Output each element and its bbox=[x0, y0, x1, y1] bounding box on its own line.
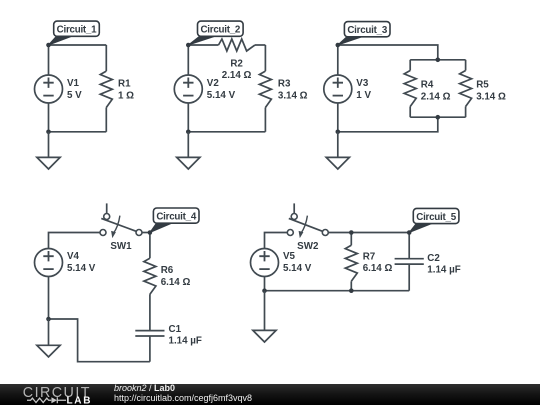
svg-text:Circuit_4: Circuit_4 bbox=[156, 212, 196, 223]
svg-text:5.14 V: 5.14 V bbox=[207, 90, 236, 101]
wire bbox=[350, 233, 352, 246]
wire bbox=[265, 290, 410, 292]
wire bbox=[49, 233, 101, 250]
footer bar bbox=[0, 384, 540, 405]
voltage source V2 bbox=[174, 75, 202, 103]
svg-text:Circuit_5: Circuit_5 bbox=[416, 212, 456, 223]
svg-text:5 V: 5 V bbox=[67, 90, 82, 101]
svg-text:C1: C1 bbox=[169, 324, 182, 335]
node junction switch output bbox=[148, 230, 153, 235]
wire bbox=[49, 44, 107, 46]
wire bbox=[142, 232, 150, 234]
svg-text:R3: R3 bbox=[278, 79, 291, 90]
wire bbox=[265, 233, 288, 250]
node junction R7 bottom bbox=[349, 288, 354, 293]
wire bbox=[408, 233, 410, 259]
svg-text:3.14 Ω: 3.14 Ω bbox=[278, 91, 308, 102]
wire bbox=[48, 277, 50, 320]
wire bbox=[49, 319, 150, 362]
svg-text:SW2: SW2 bbox=[297, 241, 319, 252]
wire bbox=[264, 277, 266, 291]
voltage source V1 bbox=[35, 75, 63, 103]
node junction bottom-left bbox=[336, 130, 341, 135]
callout label Circuit_3 bbox=[338, 22, 390, 45]
node junction parallel bottom bbox=[436, 115, 441, 120]
resistor R1 bbox=[100, 45, 112, 132]
wire bbox=[338, 45, 438, 60]
wire bbox=[187, 103, 189, 132]
wire bbox=[255, 44, 265, 46]
label V1 5 V bbox=[67, 78, 82, 101]
svg-text:R6: R6 bbox=[161, 265, 174, 276]
label C2 1.14 uF bbox=[427, 253, 460, 276]
svg-text:V5: V5 bbox=[283, 251, 296, 262]
node junction top bbox=[46, 43, 51, 48]
wire bbox=[337, 103, 339, 132]
wire bbox=[410, 116, 465, 118]
node junction C2 top bbox=[407, 230, 412, 235]
label R5 3.14 ohm bbox=[476, 79, 506, 102]
resistor R3 bbox=[259, 45, 271, 132]
node junction bottom bbox=[46, 130, 51, 135]
svg-text:6.14 Ω: 6.14 Ω bbox=[363, 263, 393, 274]
node junction parallel top bbox=[436, 58, 441, 63]
svg-text:1.14 µF: 1.14 µF bbox=[169, 335, 202, 346]
label R7 6.14 ohm bbox=[363, 251, 393, 274]
label V5 5.14 V bbox=[283, 251, 312, 274]
wire bbox=[188, 131, 265, 133]
footer text bbox=[114, 384, 252, 403]
svg-text:6.14 Ω: 6.14 Ω bbox=[161, 277, 191, 288]
voltage source V4 bbox=[35, 249, 63, 277]
svg-text:V3: V3 bbox=[356, 78, 369, 89]
node junction V5 bottom bbox=[262, 288, 267, 293]
svg-text:Circuit_2: Circuit_2 bbox=[200, 25, 240, 36]
svg-text:V4: V4 bbox=[67, 251, 80, 262]
node junction top bbox=[186, 43, 191, 48]
svg-text:LAB: LAB bbox=[67, 396, 93, 405]
callout label Circuit_5 bbox=[409, 208, 459, 232]
wire bbox=[188, 44, 218, 46]
label R2 2.14 ohm bbox=[222, 58, 252, 81]
voltage source V5 bbox=[251, 249, 279, 277]
svg-text:R1: R1 bbox=[118, 79, 131, 90]
svg-text:V2: V2 bbox=[207, 78, 220, 89]
label R4 2.14 ohm bbox=[421, 79, 451, 102]
node junction bbox=[46, 317, 51, 322]
capacitor C2 bbox=[395, 259, 424, 291]
capacitor C1 bbox=[135, 331, 164, 362]
wire bbox=[49, 131, 107, 133]
svg-text:5.14 V: 5.14 V bbox=[283, 263, 312, 274]
resistor R7 bbox=[345, 245, 357, 290]
node junction top-left bbox=[336, 43, 341, 48]
label V2 5.14 V bbox=[207, 78, 236, 101]
resistor R5 bbox=[460, 60, 472, 117]
svg-text:3.14 Ω: 3.14 Ω bbox=[476, 91, 506, 102]
svg-text:SW1: SW1 bbox=[110, 241, 132, 252]
switch SW1 bbox=[100, 203, 142, 238]
label C1 1.14 uF bbox=[169, 324, 202, 347]
label V4 5.14 V bbox=[67, 251, 96, 274]
svg-text:V1: V1 bbox=[67, 78, 80, 89]
label R1 1 ohm bbox=[118, 79, 134, 102]
wire bbox=[337, 45, 339, 75]
wire bbox=[187, 45, 189, 75]
svg-text:2.14 Ω: 2.14 Ω bbox=[421, 91, 451, 102]
callout label Circuit_2 bbox=[188, 21, 243, 45]
node junction bottom bbox=[186, 130, 191, 135]
wire bbox=[48, 45, 50, 75]
svg-text:2.14 Ω: 2.14 Ω bbox=[222, 70, 252, 81]
resistor R4 bbox=[404, 60, 416, 117]
node junction R7 top bbox=[349, 230, 354, 235]
voltage source V3 bbox=[324, 75, 352, 103]
resistor R2 bbox=[219, 39, 256, 51]
svg-text:5.14 V: 5.14 V bbox=[67, 263, 96, 274]
CircuitLab logo bbox=[0, 384, 110, 405]
wire bbox=[48, 103, 50, 132]
ground bbox=[253, 291, 276, 342]
label R3 3.14 ohm bbox=[278, 79, 308, 102]
svg-text:R5: R5 bbox=[476, 79, 489, 90]
svg-text:R4: R4 bbox=[421, 79, 434, 90]
svg-text:1 V: 1 V bbox=[356, 90, 371, 101]
wire bbox=[149, 233, 151, 259]
callout label Circuit_4 bbox=[150, 208, 199, 233]
ground bbox=[326, 132, 349, 169]
wire bbox=[338, 117, 438, 132]
label V3 1 V bbox=[356, 78, 371, 101]
ground bbox=[37, 132, 60, 169]
svg-text:Circuit_3: Circuit_3 bbox=[347, 25, 387, 36]
svg-text:R2: R2 bbox=[230, 58, 243, 69]
svg-text:R7: R7 bbox=[363, 251, 376, 262]
svg-text:Circuit_1: Circuit_1 bbox=[57, 25, 97, 36]
label R6 6.14 ohm bbox=[161, 265, 191, 288]
callout label Circuit_1 bbox=[49, 21, 100, 45]
wire bbox=[410, 59, 465, 61]
wire bbox=[328, 232, 409, 234]
ground bbox=[177, 132, 200, 169]
svg-text:C2: C2 bbox=[427, 253, 440, 264]
svg-text:1 Ω: 1 Ω bbox=[118, 91, 134, 102]
ground bbox=[37, 319, 60, 357]
switch SW2 bbox=[287, 203, 328, 238]
svg-text:1.14 µF: 1.14 µF bbox=[427, 264, 460, 275]
resistor R6 bbox=[144, 258, 156, 330]
